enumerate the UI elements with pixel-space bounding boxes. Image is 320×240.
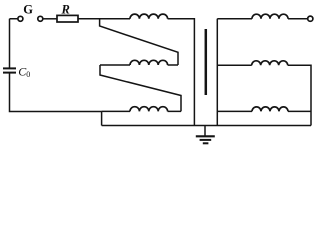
wire layer 2 row	[100, 64, 178, 66]
wire left input corner	[10, 19, 18, 68]
primary winding layer 3 coil	[130, 107, 168, 112]
wire resistor to primary layer 1	[78, 18, 130, 20]
spark gap G left electrode	[18, 16, 23, 21]
label C0	[18, 65, 30, 80]
wire layer 1 to right vertical drop	[168, 19, 195, 126]
wire secondary layer 2 row	[217, 65, 311, 125]
wire secondary left bus	[216, 19, 218, 126]
wire secondary layer 1 row	[217, 18, 307, 20]
primary winding layer 1 coil	[130, 14, 168, 19]
capacitor C0 bottom plate	[3, 72, 16, 74]
ground	[196, 126, 215, 144]
resistor R	[57, 15, 78, 22]
svg-text:G: G	[23, 2, 33, 16]
label G	[23, 2, 33, 16]
secondary winding layer 1 coil	[252, 14, 288, 19]
spark gap G right electrode	[38, 16, 43, 21]
output terminal	[308, 16, 313, 21]
wire capacitor to bottom node	[10, 74, 102, 112]
capacitor C0 top plate	[3, 67, 16, 69]
wire layer 2 left drop and diagonal to layer 3	[100, 65, 181, 111]
wire bottom node drop	[101, 111, 103, 125]
secondary winding layer 3 coil	[252, 107, 288, 112]
svg-text:R: R	[61, 3, 70, 17]
wire ground bus	[102, 125, 311, 127]
wire spark gap to resistor R	[43, 18, 57, 20]
primary winding layer 2 coil	[130, 60, 168, 65]
wire secondary layer 3 row	[217, 110, 311, 112]
svg-text:C0: C0	[18, 65, 30, 80]
label R	[61, 3, 70, 17]
wire tap junction drop and diagonal to layer 2	[100, 19, 178, 65]
secondary winding layer 2 coil	[252, 61, 288, 66]
transformer core	[205, 29, 208, 95]
wire layer 3 row	[102, 110, 181, 112]
